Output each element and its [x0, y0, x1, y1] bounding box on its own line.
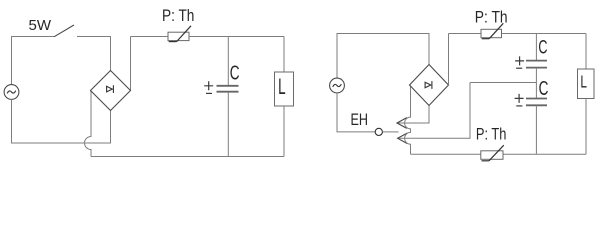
capacitor C (left), polarized plates [217, 86, 239, 92]
svg-text:P: Th: P: Th [476, 126, 507, 144]
svg-text:L: L [278, 74, 286, 99]
wire: AC source top lead up to rail and to switch [12, 37, 55, 85]
thermistor P:Th (right top) [481, 23, 503, 38]
svg-text:EH: EH [351, 111, 369, 129]
label C (left) [230, 62, 240, 85]
polarity minus mark (left cap) [206, 92, 212, 94]
capacitor C (right bottom), polarized plates [526, 99, 547, 106]
plug pin arrow (lower), line to capacitor midpoint riser [398, 83, 470, 144]
wire: bridge minus output, left vertex down with hop over AC return, to bottom rail [85, 91, 91, 157]
thermistor P:Th (right bottom) [481, 145, 504, 161]
EH terminal circle (socket) [375, 128, 382, 135]
ac source G2 (right) [330, 78, 345, 93]
wire: AC source top lead to rail and bridge top vertex [337, 34, 429, 79]
svg-text:5W: 5W [29, 17, 52, 34]
label P: Th (right bottom) [476, 126, 507, 144]
label P: Th (left) [162, 7, 194, 25]
label C (right top) [538, 37, 547, 58]
wire: bridge plus output, right vertex up to top rail [448, 34, 450, 86]
wire: top DC rail (right circuit) [449, 33, 587, 35]
polarity plus mark (right top cap) [515, 56, 524, 65]
wire: bottom DC rail (right circuit) [411, 153, 587, 155]
polarity minus mark (right top cap) [516, 67, 522, 69]
wire: switch right contact to bridge top vertex [77, 37, 111, 71]
wire: capacitor C bottom lead (left) [227, 92, 229, 157]
plug pin arrow (upper), line to bridge bottom vertex [397, 106, 429, 129]
label EH [351, 111, 369, 129]
wire: load bottom lead (left) [283, 106, 285, 157]
switch 5W blade [54, 25, 74, 37]
wire: between capacitors (through midpoint junction) [535, 68, 537, 99]
wire: load top lead (right) [585, 34, 587, 70]
polarity plus mark (left cap) [204, 81, 213, 90]
wire: midpoint junction wire to riser [470, 82, 536, 84]
thermistor P:Th (left) [168, 26, 191, 42]
wire: top DC rail (left circuit) [131, 36, 285, 38]
svg-text:P: Th: P: Th [475, 8, 508, 26]
label 5W [29, 17, 52, 34]
svg-text:P: Th: P: Th [162, 7, 194, 25]
wire: AC return to EH terminal circle [337, 93, 375, 132]
wire: capacitor C top lead (left) [227, 37, 229, 86]
wire: load top lead (left) [283, 37, 285, 73]
diode symbol inside right bridge [425, 81, 432, 89]
label P: Th (right top) [475, 8, 508, 26]
svg-text:C: C [539, 78, 549, 100]
wire: AC return lead (source bottom to bridge bottom vertex) [12, 99, 111, 143]
polarity minus mark (right bottom cap) [516, 105, 522, 107]
bridge rectifier (left diamond) [91, 71, 131, 111]
wire: bridge plus output, right vertex up to top rail [130, 37, 132, 91]
label C (right bottom) [539, 78, 549, 100]
bridge rectifier (right diamond) [410, 65, 449, 106]
wire: bridge minus output, left vertex down with two hops, to bottom rail [405, 85, 411, 154]
wire: bottom DC rail (left circuit) [91, 156, 284, 158]
wire: capacitor stack top lead [535, 34, 537, 61]
svg-text:C: C [230, 62, 240, 85]
polarity plus mark (right bottom cap) [515, 94, 524, 103]
load L (right) [578, 69, 595, 99]
wire: stub from EH circle [383, 131, 399, 133]
svg-text:L: L [580, 72, 587, 92]
svg-text:C: C [538, 37, 547, 58]
diode symbol inside left bridge [107, 85, 114, 93]
load L (left) [275, 72, 294, 106]
wire: load bottom lead (right) [585, 99, 587, 155]
wire: capacitor stack bottom lead to bottom rail [535, 105, 537, 154]
capacitor C (right top), polarized plates [526, 61, 547, 68]
ac source G1 (left) [4, 85, 19, 100]
